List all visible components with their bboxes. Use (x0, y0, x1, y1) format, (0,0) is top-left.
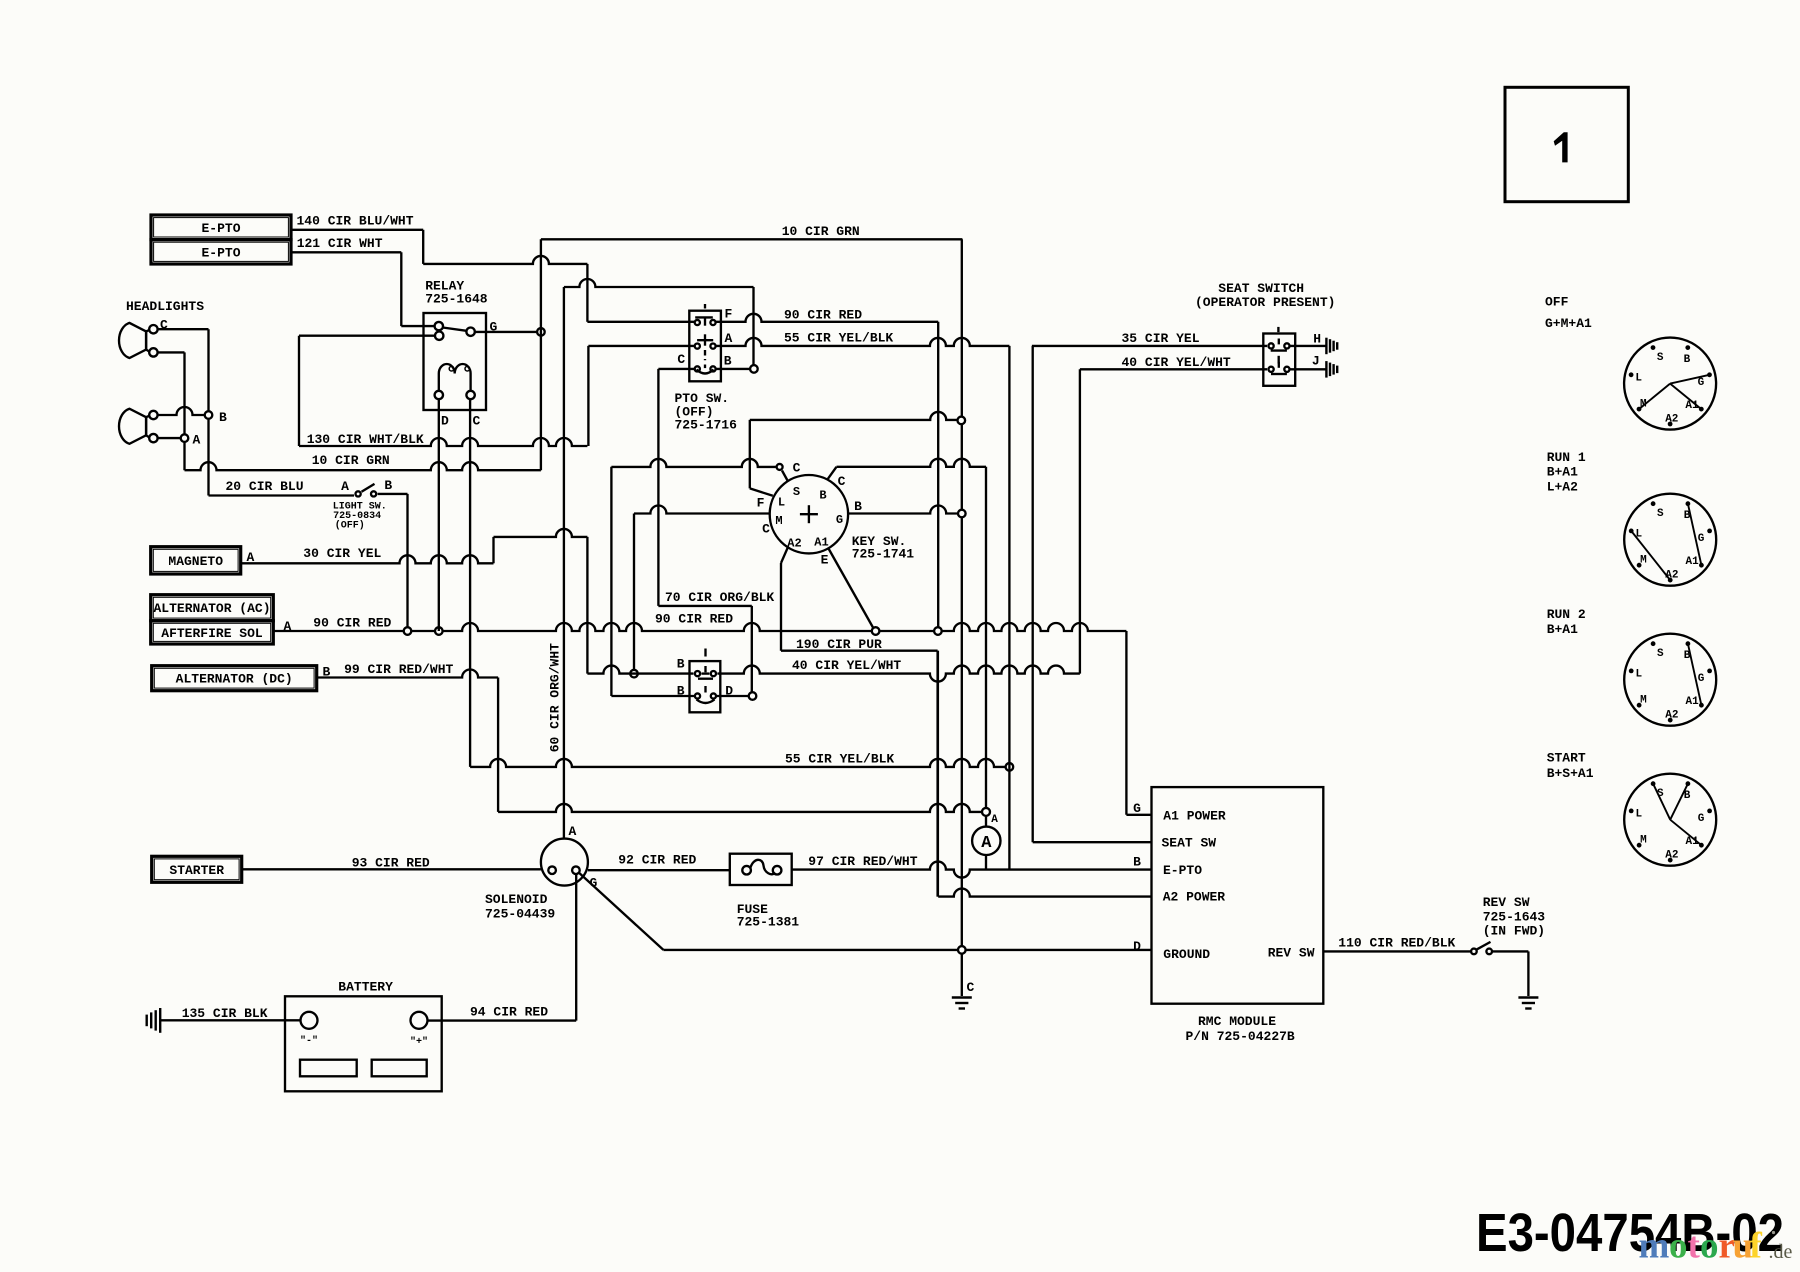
svg-text:L: L (778, 496, 785, 510)
wire 97 CIR RED/WHT (792, 854, 1152, 878)
svg-text:E: E (821, 553, 829, 568)
svg-text:A1: A1 (1685, 556, 1699, 568)
ammeter lead upper (985, 816, 987, 827)
svg-text:BATTERY: BATTERY (338, 980, 393, 995)
svg-text:SEAT SW: SEAT SW (1162, 836, 1217, 851)
svg-text:99 CIR RED/WHT: 99 CIR RED/WHT (344, 662, 453, 677)
interlock pin B-right (711, 671, 716, 676)
key position text OFF (1545, 295, 1592, 332)
wire keyC vert (610, 467, 612, 696)
svg-text:C: C (967, 980, 975, 995)
svg-text:725-1648: 725-1648 (425, 292, 488, 307)
label C headlight (160, 318, 168, 333)
seat pin H-right (1284, 343, 1289, 348)
svg-text:AFTERFIRE SOL: AFTERFIRE SOL (161, 626, 263, 641)
svg-text:140 CIR BLU/WHT: 140 CIR BLU/WHT (297, 214, 414, 229)
wire 90 CIR RED pto-f (716, 308, 939, 323)
svg-text:B: B (1133, 855, 1141, 870)
svg-text:10 CIR GRN: 10 CIR GRN (312, 453, 390, 468)
svg-text:F: F (757, 496, 765, 511)
wire key E diagonal (821, 549, 873, 628)
label C pto (677, 352, 685, 367)
battery box (285, 996, 442, 1091)
svg-text:C: C (473, 414, 481, 429)
PTO pin A-right (710, 344, 715, 349)
interlock upper contact (698, 649, 713, 679)
svg-text:SEAT SWITCH: SEAT SWITCH (1218, 281, 1304, 296)
svg-text:C: C (677, 352, 685, 367)
label A solenoid (569, 824, 577, 839)
svg-text:A2: A2 (787, 537, 801, 551)
wire 140 vert to PTO F (586, 264, 588, 322)
svg-text:ALTERNATOR (AC): ALTERNATOR (AC) (153, 601, 270, 616)
module text REV SW (1268, 946, 1315, 961)
svg-text:725-1716: 725-1716 (675, 418, 738, 433)
wire 99 CIR RED/WHT (317, 662, 498, 678)
wire A2 POWER feed (938, 651, 1152, 897)
label B alternator dc (323, 665, 331, 680)
node B junction (205, 411, 213, 419)
fuse element (742, 860, 781, 875)
node relayD-90 junction (435, 627, 443, 635)
node 90vert junction (934, 627, 942, 635)
label F pto (725, 307, 733, 322)
wire 190 CIR PUR (781, 637, 938, 897)
svg-text:t: t (1688, 1226, 1701, 1267)
svg-text:B: B (384, 478, 392, 493)
svg-text:m: m (1639, 1226, 1670, 1267)
sheet number box (1505, 87, 1628, 201)
svg-text:G: G (1698, 813, 1705, 825)
module text E-PTO (1163, 863, 1202, 878)
E-PTO connector 1 (151, 215, 291, 240)
wire 35 CIR YEL (1032, 331, 1267, 346)
wire A1 POWER feed (1126, 631, 1151, 815)
wire 135 CIR BLK (161, 1006, 301, 1021)
wire ground drop (962, 954, 975, 996)
key position circle RUN 1 (1624, 494, 1716, 586)
svg-text:725-04439: 725-04439 (485, 907, 555, 922)
wire headlight1 lower to vertical (158, 351, 185, 353)
seat pin H-left (1269, 343, 1274, 348)
svg-text:B: B (724, 354, 732, 369)
PTO A-B link dash (704, 350, 706, 360)
wire 55 CIR YEL/BLK upper (588, 331, 1009, 346)
svg-text:A: A (569, 824, 577, 839)
wire 60 top row (564, 279, 754, 287)
PTO B contact (697, 365, 714, 374)
seat pin J-left (1269, 367, 1274, 372)
svg-text:SOLENOID: SOLENOID (485, 892, 548, 907)
key label L (778, 496, 785, 510)
headlight lamp 1 (119, 323, 146, 358)
label C relay (473, 414, 481, 429)
node PTO B junction (750, 365, 758, 373)
wire 55 CIR YEL/BLK lower (470, 752, 1009, 767)
relay coil (439, 364, 471, 391)
wire 30yel-40 vertical (586, 537, 588, 674)
label B interlock lower (677, 684, 685, 699)
relay NO contact (466, 328, 474, 336)
wire solenoid right terminal down (575, 874, 577, 1021)
svg-text:RMC MODULE: RMC MODULE (1198, 1014, 1276, 1029)
wire 90 CIR RED bus (273, 612, 1126, 632)
motoruf.de watermark (1639, 1226, 1793, 1267)
svg-text:G: G (1698, 533, 1705, 545)
chassis ground battery (147, 1008, 161, 1033)
PTO pin F-left (695, 320, 700, 325)
wire 121 CIR WHT (291, 236, 435, 326)
PTO SW. (OFF) 725-1716 labels (675, 391, 738, 433)
relay common contact (435, 322, 443, 330)
wire 10 CIR GRN lower row (185, 453, 541, 470)
svg-text:G: G (836, 513, 843, 527)
svg-text:M: M (1640, 695, 1647, 707)
KEY SW. 725-1741 labels (852, 534, 915, 562)
REV SW labels (1483, 895, 1546, 939)
svg-text:.de: .de (1769, 1241, 1793, 1263)
svg-text:RUN 1: RUN 1 (1547, 450, 1586, 465)
PTO switch box (689, 311, 721, 382)
key position text RUN 1 (1547, 450, 1586, 495)
wire 10GRN left vertical (540, 239, 542, 470)
wire headlight2 upper to B (158, 407, 204, 415)
svg-text:121 CIR WHT: 121 CIR WHT (297, 236, 383, 251)
svg-text:"-": "-" (300, 1035, 318, 1047)
key label S (793, 485, 800, 499)
svg-text:M: M (1640, 835, 1647, 847)
wire key C feed row (611, 459, 775, 467)
SOLENOID 725-04439 labels (485, 892, 555, 922)
solenoid terminal right (572, 866, 580, 874)
module text A1 POWER (1163, 809, 1226, 824)
wire solenoid G diagonal (578, 872, 663, 950)
wire PTO B to junction (716, 368, 750, 370)
wire 130 CIR WHT/BLK (299, 432, 587, 447)
interlock pin B-left (695, 671, 700, 676)
svg-text:725-1381: 725-1381 (737, 915, 800, 930)
wire PTO C left (658, 368, 694, 370)
wire 60 CIR ORG/WHT vertical (548, 287, 564, 839)
wire vertical lightsw to 90row (406, 494, 408, 631)
node keyM-40 junction (630, 670, 638, 678)
svg-text:B: B (854, 499, 862, 514)
PTO pin F-right (710, 320, 715, 325)
label A afterfire (284, 619, 292, 634)
relay NC contact (435, 332, 443, 340)
chassis ground J (1326, 361, 1337, 378)
drawing number E3-04754B-02 (1476, 1203, 1784, 1263)
svg-text:F: F (725, 307, 733, 322)
headlight 1 terminal C (146, 325, 157, 333)
svg-text:D: D (441, 414, 449, 429)
svg-text:20 CIR BLU: 20 CIR BLU (226, 479, 304, 494)
headlight 2 upper terminal (146, 411, 157, 419)
PTO A contact bar (697, 334, 713, 345)
wire PTO F feed (587, 321, 694, 323)
svg-text:(OFF): (OFF) (335, 520, 365, 532)
svg-text:f: f (1750, 1226, 1763, 1267)
module pin G label (1133, 801, 1141, 816)
svg-text:A: A (725, 331, 733, 346)
label B interlock upper (677, 657, 685, 672)
E-PTO connector 2 (151, 240, 291, 264)
battery plus label (410, 1036, 428, 1048)
label A pto (725, 331, 733, 346)
wire vertical lamp1C-B-20BLU (207, 329, 209, 495)
wire 55a vertical (1008, 346, 1010, 870)
STARTER box (152, 856, 242, 882)
svg-text:A2: A2 (1665, 413, 1678, 425)
SEAT SWITCH labels (1195, 281, 1335, 310)
wire 93 CIR RED (242, 856, 541, 871)
key position circle OFF (1624, 338, 1716, 430)
AFTERFIRE SOL box (151, 621, 274, 644)
label D relay (441, 414, 449, 429)
headlight 1 lower terminal (146, 348, 157, 356)
key label A2 (787, 537, 801, 551)
svg-text:S: S (1657, 508, 1664, 520)
svg-text:130 CIR WHT/BLK: 130 CIR WHT/BLK (307, 432, 424, 447)
wire key M row (634, 506, 770, 537)
svg-text:L+A2: L+A2 (1547, 480, 1578, 495)
svg-text:92 CIR RED: 92 CIR RED (618, 853, 696, 868)
svg-text:J: J (1312, 354, 1320, 369)
svg-text:B: B (219, 410, 227, 425)
svg-text:110 CIR RED/BLK: 110 CIR RED/BLK (1338, 936, 1455, 951)
wire 30 CIR YEL (241, 546, 494, 563)
svg-text:C: C (793, 461, 801, 476)
svg-text:60 CIR ORG/WHT: 60 CIR ORG/WHT (548, 643, 563, 752)
wire headlight2 lower to A (158, 437, 180, 439)
wire 40 CIR YEL/WHT mid (587, 658, 1080, 682)
svg-text:90 CIR RED: 90 CIR RED (784, 308, 862, 323)
svg-text:G: G (1698, 673, 1705, 685)
node keyF-GRN junction (958, 417, 966, 425)
wire 70 CIR ORG/BLK (658, 590, 774, 692)
FUSE 725-1381 labels (737, 902, 800, 930)
wire key A2 diagonal (781, 547, 788, 651)
svg-text:G: G (490, 320, 498, 335)
wire interlock lower-right row (716, 695, 748, 697)
seat J contact (1271, 362, 1287, 374)
PTO pin B-left (695, 366, 700, 371)
rev switch contacts (1471, 942, 1492, 954)
node keyB junction (958, 510, 966, 518)
node 55-junction (1006, 763, 1014, 771)
ALTERNATOR (AC) box (151, 595, 274, 621)
key position text RUN 2 (1547, 607, 1586, 637)
svg-text:A2 POWER: A2 POWER (1163, 890, 1226, 905)
svg-text:o: o (1669, 1226, 1688, 1267)
svg-text:OFF: OFF (1545, 295, 1569, 310)
svg-text:o: o (1700, 1226, 1719, 1267)
sheet number 1 (1554, 132, 1568, 162)
node D junction (749, 692, 757, 700)
label J seat (1312, 354, 1320, 369)
key switch cross (800, 505, 818, 523)
MAGNETO box (151, 547, 241, 574)
wire 35 vertical (1032, 346, 1034, 842)
headlight lamp 2 (119, 409, 146, 444)
svg-text:725-1741: 725-1741 (852, 547, 915, 562)
wire 60 to PTO B vertical (752, 287, 754, 365)
node 190PUR-90 junction (872, 627, 880, 635)
label B pto (724, 354, 732, 369)
wire light switch B output (378, 493, 408, 495)
svg-text:A2: A2 (1665, 849, 1678, 861)
svg-text:E-PTO: E-PTO (201, 221, 240, 236)
solenoid terminal left (548, 866, 556, 874)
ammeter circle (972, 827, 1000, 855)
svg-text:70 CIR ORG/BLK: 70 CIR ORG/BLK (665, 590, 774, 605)
wire vertical lamp1 lower to A (183, 352, 185, 470)
key position text START (1547, 751, 1594, 782)
svg-text:55 CIR YEL/BLK: 55 CIR YEL/BLK (784, 331, 893, 346)
battery cell rect 2 (372, 1060, 427, 1077)
svg-text:90 CIR RED: 90 CIR RED (655, 612, 733, 627)
wire 140 CIR BLU/WHT (291, 214, 587, 264)
label H seat (1313, 332, 1321, 347)
svg-text:725-1643: 725-1643 (1483, 910, 1546, 925)
battery terminal plus (411, 1012, 428, 1029)
wire headlight1 C to vertical (158, 328, 209, 330)
wire SEAT SW feed (1033, 841, 1152, 843)
label D interlock (725, 684, 733, 699)
label G solenoid (590, 876, 598, 891)
label A magneto (247, 550, 255, 565)
RMC MODULE P/N labels (1186, 1014, 1295, 1044)
RELAY 725-1648 labels (425, 279, 488, 307)
battery minus label (300, 1035, 318, 1047)
svg-text:ALTERNATOR (DC): ALTERNATOR (DC) (176, 672, 293, 687)
svg-text:A1 POWER: A1 POWER (1163, 809, 1226, 824)
BATTERY label (338, 980, 393, 995)
battery cell rect 1 (300, 1060, 357, 1077)
svg-text:G+M+A1: G+M+A1 (1545, 316, 1592, 331)
svg-text:H: H (1313, 332, 1321, 347)
svg-text:A: A (193, 433, 201, 448)
wire ground row (663, 949, 1151, 951)
wire 55a left jog (587, 346, 589, 446)
wire keyC vertical to ammeter (985, 467, 987, 808)
svg-text:35 CIR YEL: 35 CIR YEL (1122, 331, 1200, 346)
HEADLIGHTS label (126, 299, 204, 314)
interlock pin D-left (695, 693, 700, 698)
wire key M vertical (633, 514, 635, 670)
wire 30 yel jog up (492, 537, 494, 563)
wire seat H to ground (1290, 345, 1326, 347)
svg-text:L: L (1635, 809, 1642, 821)
svg-text:A1: A1 (814, 536, 828, 550)
wire 30 yel upper seg (494, 529, 588, 537)
relay box (424, 313, 487, 410)
svg-text:B+S+A1: B+S+A1 (1547, 766, 1594, 781)
svg-text:40 CIR YEL/WHT: 40 CIR YEL/WHT (1122, 355, 1231, 370)
wire 94 CIR RED (428, 1005, 577, 1021)
wire relay NC left (299, 335, 435, 337)
ammeter terminal (982, 808, 998, 826)
node relay G junction (537, 328, 545, 336)
wire seat J to ground (1290, 368, 1326, 370)
svg-text:P/N 725-04227B: P/N 725-04227B (1186, 1029, 1295, 1044)
svg-text:10 CIR GRN: 10 CIR GRN (782, 224, 860, 239)
wire 20 CIR BLU row (209, 479, 355, 496)
key switch circle (770, 475, 848, 553)
svg-text:A: A (981, 834, 992, 853)
wire rev sw to ground (1492, 951, 1528, 996)
interlock pin D-right (711, 693, 716, 698)
svg-text:S: S (793, 485, 800, 499)
wire 90CIRRED right vertical (937, 322, 939, 627)
svg-text:START: START (1547, 751, 1586, 766)
svg-text:REV SW: REV SW (1483, 895, 1530, 910)
wire key F (750, 412, 957, 511)
wire 92 CIR RED (588, 853, 730, 871)
svg-text:D: D (1133, 939, 1141, 954)
svg-text:L: L (1635, 669, 1642, 681)
svg-text:97 CIR RED/WHT: 97 CIR RED/WHT (808, 854, 917, 869)
svg-text:B+A1: B+A1 (1547, 622, 1578, 637)
relay coil terminal C (466, 391, 474, 399)
battery terminal minus (301, 1012, 318, 1029)
interlock lower contact (697, 686, 715, 703)
seat switch box (1263, 334, 1295, 386)
light switch LIGHT SW. 725-0834 (OFF) (333, 478, 393, 532)
seat pin J-right (1284, 367, 1289, 372)
earth ground symbol rev (1518, 998, 1538, 1009)
svg-text:M: M (1640, 555, 1647, 567)
svg-text:55 CIR YEL/BLK: 55 CIR YEL/BLK (785, 752, 894, 767)
PTO pin B-right (710, 366, 715, 371)
module text SEAT SW (1162, 836, 1217, 851)
module pin D label (1133, 939, 1141, 954)
svg-text:HEADLIGHTS: HEADLIGHTS (126, 299, 204, 314)
svg-text:"+": "+" (410, 1036, 428, 1048)
relay moving arm (443, 328, 467, 331)
wire interlock lower-left row (611, 695, 695, 697)
ammeter A glyph (981, 834, 992, 853)
wire 99 jog down (497, 678, 499, 812)
svg-text:A: A (341, 479, 349, 494)
svg-text:90 CIR RED: 90 CIR RED (313, 616, 391, 631)
svg-text:C: C (762, 522, 770, 537)
svg-text:A: A (991, 814, 998, 826)
svg-text:B+A1: B+A1 (1547, 465, 1578, 480)
svg-text:REV SW: REV SW (1268, 946, 1315, 961)
PTO pin A-left (695, 344, 700, 349)
wire PTO C vertical (657, 369, 659, 606)
svg-text:M: M (775, 514, 782, 528)
wire 10 CIR GRN top (541, 224, 963, 239)
RMC MODULE box (1152, 787, 1324, 1004)
svg-text:MAGNETO: MAGNETO (168, 554, 223, 569)
svg-text:RUN 2: RUN 2 (1547, 607, 1586, 622)
key label M (775, 514, 782, 528)
svg-text:E-PTO: E-PTO (1163, 863, 1202, 878)
svg-text:40 CIR YEL/WHT: 40 CIR YEL/WHT (792, 658, 901, 673)
node A junction (181, 434, 189, 442)
seat H contact (1271, 327, 1287, 351)
key terminal C top-left (777, 461, 801, 481)
wire 40 CIR YEL/WHT right (1080, 355, 1267, 370)
svg-text:B: B (819, 489, 826, 503)
svg-text:A2: A2 (1665, 709, 1678, 721)
key position circle START (1624, 774, 1716, 866)
svg-text:30 CIR YEL: 30 CIR YEL (303, 546, 381, 561)
wire relay D down (438, 399, 440, 631)
relay G wire (475, 320, 537, 335)
